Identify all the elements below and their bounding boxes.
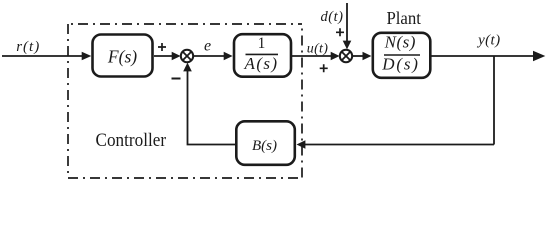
wire r(t) input (2, 55, 83, 57)
summing junction S1 (181, 50, 193, 62)
svg-text:B(s): B(s) (252, 138, 277, 154)
svg-text:r(t): r(t) (16, 39, 40, 55)
svg-text:Controller: Controller (96, 131, 167, 151)
wire feedback branch down from output node (493, 56, 495, 145)
svg-text:u(t): u(t) (307, 41, 328, 56)
wire d(t) disturbance input (346, 3, 348, 42)
svg-text:A(s): A(s) (244, 54, 279, 73)
wire feedback to B(s) (305, 144, 494, 146)
wire 1/A(s) to summing junction S2 (292, 55, 333, 57)
svg-text:e: e (204, 38, 211, 55)
block 1/A(s) (234, 34, 291, 76)
svg-text:y(t): y(t) (476, 32, 500, 48)
svg-text:N(s): N(s) (384, 33, 416, 52)
wire S2 to plant (352, 55, 364, 57)
block F(s) (93, 35, 153, 77)
svg-text:d(t): d(t) (321, 9, 344, 25)
wire plant to output y(t) (431, 55, 535, 57)
controller boundary dash-dot box (68, 24, 302, 178)
svg-text:1: 1 (258, 35, 266, 52)
minus sign at S1 feedback input (172, 78, 181, 80)
plus sign at S1 input (158, 43, 166, 51)
plus sign at S2 u input (320, 64, 328, 72)
summing junction S2 (340, 50, 352, 62)
block B(s) (236, 121, 294, 165)
svg-text:F(s): F(s) (107, 47, 137, 67)
svg-text:D(s): D(s) (381, 54, 419, 73)
wire F(s) to summing junction S1 (154, 55, 173, 57)
wire B(s) back to S1 (188, 70, 237, 145)
block N(s)/D(s) plant (373, 33, 431, 78)
wire S1 to 1/A(s) (193, 55, 225, 57)
svg-text:Plant: Plant (386, 8, 421, 28)
plus sign at S2 d input (336, 28, 344, 36)
